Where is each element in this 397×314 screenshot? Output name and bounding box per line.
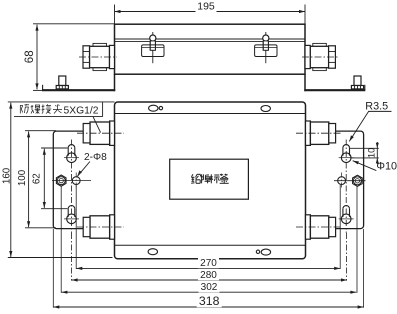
svg-text:195: 195 xyxy=(197,0,215,12)
baseline left end tick xyxy=(42,85,44,90)
rim slot bottom-right xyxy=(261,249,270,255)
cable gland left (front view) xyxy=(93,43,107,70)
flange rim line top xyxy=(115,113,306,115)
dimension 195 extension line left xyxy=(114,5,116,24)
label phi10 leader xyxy=(353,161,377,171)
cable gland right-top (plan) xyxy=(306,121,311,145)
keyhole slot right-bottom xyxy=(343,205,350,208)
ext line bracket left xyxy=(52,229,54,308)
rim slot top-left xyxy=(149,105,158,111)
dimension 280 line xyxy=(72,279,347,281)
fastener centerline right xyxy=(334,180,366,182)
mounting bracket plate right (plan) xyxy=(301,131,364,229)
cable gland left-top (plan) xyxy=(110,121,115,145)
enclosure box (plan view) xyxy=(115,102,306,259)
foot bolt right (front view) xyxy=(354,76,361,86)
gland centerline right-top xyxy=(296,132,341,134)
dimension 195 line xyxy=(115,11,306,13)
dimension 302 text xyxy=(199,282,220,292)
label leader line xyxy=(93,117,101,133)
lid clamp bolt 2 (front view) xyxy=(265,32,267,63)
dimension 280 text xyxy=(198,270,219,280)
svg-text:62: 62 xyxy=(31,173,42,184)
dimension 68 extension line top xyxy=(33,23,115,25)
mounting baseline left xyxy=(42,89,115,91)
rim slot top-right xyxy=(261,106,270,112)
mounting bracket left vertical xyxy=(114,74,116,91)
foot bolt left (front view) xyxy=(59,76,66,86)
phi8 hole left xyxy=(72,177,80,185)
svg-text:Φ10: Φ10 xyxy=(376,160,397,172)
gland centerline left-bottom xyxy=(77,226,124,228)
dimension 195 text xyxy=(196,2,217,13)
svg-text:10: 10 xyxy=(367,148,377,158)
nameplate box xyxy=(170,159,249,199)
dimension 68 extension line bottom xyxy=(33,89,44,91)
dimension 100 line xyxy=(28,131,30,227)
dimension 160 top extension / label top line xyxy=(8,101,115,103)
ext line keyhole left xyxy=(71,233,73,281)
ext line phi8 left xyxy=(75,185,77,269)
dimension 62 bottom extension xyxy=(41,208,68,210)
baseline right end tick xyxy=(364,85,366,90)
nameplate text mingpai biaoqian xyxy=(192,174,194,177)
dimension 318 line xyxy=(53,306,363,308)
svg-text:R3.5: R3.5 xyxy=(365,101,388,113)
dimension 270 text xyxy=(198,258,219,268)
dimension 270 line xyxy=(76,267,340,269)
enclosure body (front view) xyxy=(115,24,306,74)
lid joint line 1 xyxy=(115,38,306,40)
label callout right edge xyxy=(102,102,104,117)
ext line keyhole right xyxy=(345,233,347,281)
dimension 318 text xyxy=(197,297,222,307)
dimension 195 extension line right xyxy=(304,5,306,24)
label text fangbao jietou 5XG1/2 xyxy=(19,105,21,113)
svg-text:280: 280 xyxy=(200,270,217,281)
ext line bracket right xyxy=(363,229,365,308)
phi8 hole right xyxy=(338,177,346,185)
rim slot bottom-left xyxy=(148,249,157,255)
svg-text:160: 160 xyxy=(1,167,12,184)
lid joint line 2 xyxy=(115,40,306,42)
dimension 160 line xyxy=(10,103,12,257)
lid clamp bolt 1 (front view) xyxy=(152,32,154,63)
svg-text:2-Φ8: 2-Φ8 xyxy=(84,152,107,163)
label R3.5 leader xyxy=(368,110,391,112)
keyhole slot left-bottom xyxy=(68,206,75,209)
hex bolt left xyxy=(56,175,66,186)
keyhole slot left-top xyxy=(68,145,75,148)
gland centerline right (front view) xyxy=(302,56,339,58)
phi8 hole right vertical centerline xyxy=(341,173,343,190)
dimension 302 line xyxy=(61,291,356,293)
gland centerline left (front view) xyxy=(79,56,117,58)
svg-text:100: 100 xyxy=(17,169,28,186)
dimension 10 extension bottom xyxy=(351,157,379,159)
cable gland right-bottom (plan) xyxy=(306,215,311,239)
gland centerline right-bottom xyxy=(296,226,341,228)
ext line hex left xyxy=(60,187,62,293)
dimension 68 line xyxy=(36,25,38,90)
keyhole slot right-top xyxy=(343,145,350,148)
phi8 hole left vertical centerline xyxy=(75,173,77,190)
dimension 100 top extension xyxy=(25,130,56,132)
mounting baseline right xyxy=(304,89,365,91)
mounting bracket right vertical xyxy=(304,74,306,91)
dimension 62 line xyxy=(43,149,45,208)
keyhole centerline right xyxy=(345,140,347,234)
fastener centerline left xyxy=(52,180,91,182)
label callout underline xyxy=(14,116,103,118)
ext line phi8 right xyxy=(339,185,341,269)
cable gland right (front view) xyxy=(313,43,327,70)
rim plug dot top-left xyxy=(159,106,162,109)
dimension 10 extension top xyxy=(350,147,379,149)
rim plug dot bottom-right xyxy=(256,250,259,253)
svg-text:318: 318 xyxy=(199,294,220,308)
dimension 160 bottom extension xyxy=(8,257,113,259)
flange rim line bottom xyxy=(115,244,306,246)
ext line hex right xyxy=(356,187,358,293)
svg-text:68: 68 xyxy=(24,50,36,63)
keyhole centerline left xyxy=(71,140,73,234)
dimension 62 top extension xyxy=(41,147,68,149)
svg-text:302: 302 xyxy=(201,282,218,293)
gland centerline left-top xyxy=(77,132,124,134)
dimension 100 bottom extension xyxy=(25,227,56,229)
svg-text:5XG1/2: 5XG1/2 xyxy=(64,105,99,116)
hex bolt right xyxy=(353,175,363,186)
cable gland left-bottom (plan) xyxy=(110,215,115,239)
label 2-phi8 leader xyxy=(77,162,90,177)
svg-text:270: 270 xyxy=(200,258,217,269)
mounting bracket plate left (plan) xyxy=(53,131,116,229)
dimension 10 line xyxy=(376,142,378,164)
